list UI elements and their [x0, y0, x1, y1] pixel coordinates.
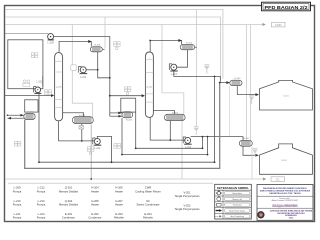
- vent funnel near tank V-202: [252, 148, 257, 157]
- CWR header line: [5, 24, 265, 26]
- feed arrow to column Q-201 from sheet 1: [5, 94, 54, 96]
- svg-text:E-203: E-203: [79, 115, 86, 117]
- recirculation box below Q-201: [25, 100, 38, 112]
- heater H-207: [235, 138, 256, 146]
- transfer line cascade 4: [25, 83, 220, 169]
- condenser E-201: [87, 45, 106, 52]
- svg-text:PFD BAGIAN 2/2: PFD BAGIAN 2/2: [265, 5, 308, 11]
- svg-text:Pompa: Pompa: [13, 189, 22, 193]
- reboiler E-204 drain: [169, 120, 171, 140]
- sheet title box PFD BAGIAN 2/2: [262, 2, 311, 11]
- condensate line E-202 down: [177, 50, 188, 67]
- steam lines to H-204: [8, 114, 24, 116]
- svg-text:Pompa: Pompa: [13, 203, 22, 207]
- svg-text:H-204: H-204: [28, 111, 35, 113]
- svg-text:L-210: L-210: [80, 76, 87, 79]
- svg-text:Pompa: Pompa: [37, 189, 46, 193]
- reboiler E-203 drain: [81, 124, 83, 141]
- svg-text:DARI ETHANOL DENGAN PROSES OXO: DARI ETHANOL DENGAN PROSES OXO-SYNTHESIS: [260, 190, 311, 193]
- svg-text:Heater: Heater: [115, 189, 123, 193]
- svg-text:H-205: H-205: [126, 120, 133, 122]
- equipment table rule: [8, 182, 213, 184]
- CWS header line: [5, 10, 223, 79]
- svg-text:Heater: Heater: [91, 189, 99, 193]
- SC collection line: [5, 178, 266, 180]
- pump L-210: [79, 66, 88, 79]
- svg-text:Q-202: Q-202: [147, 87, 154, 89]
- svg-text:E-202: E-202: [186, 42, 193, 44]
- instrument cluster E: [14, 141, 20, 146]
- equipment table text: [13, 186, 200, 220]
- svg-text:H-206: H-206: [235, 78, 242, 80]
- vapor line column Q-202 to E-202: [150, 41, 181, 52]
- pump L-211 discharge drop: [38, 93, 40, 163]
- reboiler vapor return Q-202: [153, 111, 174, 115]
- svg-text:Reboiler: Reboiler: [114, 216, 124, 220]
- drain valve below reboiler E-203: [79, 126, 84, 129]
- svg-text:Pompa: Pompa: [13, 216, 22, 220]
- svg-text:KAPASITAS 40.000 TON / TAHUN: KAPASITAS 40.000 TON / TAHUN: [269, 192, 301, 195]
- university logo: [258, 212, 264, 218]
- reboiler vapor return Q-201: [63, 113, 84, 117]
- svg-text:L-210: L-210: [14, 199, 21, 203]
- svg-text:Tangki Penyimpanan: Tangki Penyimpanan: [175, 194, 200, 198]
- svg-text:L-213: L-213: [38, 199, 45, 203]
- svg-text:Nomor Arus: Nomor Arus: [232, 192, 242, 195]
- svg-text:Arus Proses Utama: Arus Proses Utama: [229, 209, 245, 212]
- svg-text:E-204: E-204: [172, 112, 179, 114]
- svg-text:CWR: CWR: [145, 186, 151, 190]
- svg-text:Tangki Penyimpanan: Tangki Penyimpanan: [175, 207, 200, 211]
- tank V-202: [260, 144, 313, 174]
- recirculation box below Q-202: [121, 98, 136, 112]
- svg-text:Condensor: Condensor: [88, 216, 101, 220]
- condensate drop from reboiler E-203: [90, 125, 92, 179]
- instrument cluster A: [114, 42, 121, 50]
- vent funnel near pump L-213: [204, 64, 210, 73]
- svg-text:E-202: E-202: [91, 212, 99, 216]
- svg-text:1: 1: [58, 60, 59, 62]
- svg-text:Condensor: Condensor: [62, 216, 75, 220]
- instrument cluster F: [87, 147, 94, 155]
- svg-text:L-209: L-209: [48, 41, 55, 44]
- svg-text:L-211: L-211: [14, 212, 21, 216]
- cooler H-206: [226, 78, 245, 86]
- instrument cluster B: [124, 87, 131, 95]
- drain funnel near pump L-214: [194, 126, 199, 135]
- cooling water drop to condenser E-202: [195, 10, 197, 127]
- reboiler E-204: [160, 112, 189, 120]
- reboiler E-203: [67, 115, 98, 124]
- svg-text:Steam Condensate: Steam Condensate: [136, 203, 160, 207]
- SC connector box: [271, 177, 285, 182]
- svg-text:Arus Pendukung: Arus Pendukung: [231, 215, 244, 218]
- svg-text:Cooling Water Return: Cooling Water Return: [135, 189, 161, 193]
- svg-text:L-212: L-212: [38, 186, 45, 190]
- svg-text:H-207: H-207: [244, 138, 251, 140]
- condenser E-202: [177, 42, 198, 49]
- svg-text:DIAGRAM ALIR PROSES PABRIK N-B: DIAGRAM ALIR PROSES PABRIK N-BUTANOL: [263, 187, 308, 190]
- svg-text:Menara Distilasi: Menara Distilasi: [59, 203, 79, 207]
- pump L-209: [48, 34, 55, 45]
- steam riser to reboiler E-204: [162, 25, 184, 116]
- condensate drop from heater H-207: [251, 147, 253, 179]
- svg-text:Reboiler: Reboiler: [143, 216, 153, 220]
- title block: [257, 185, 313, 221]
- svg-text:H-205: H-205: [91, 199, 99, 203]
- product line to tank V-201: [237, 86, 257, 95]
- transfer line cascade 3: [39, 76, 215, 162]
- vent funnel near tank V-201: [249, 95, 254, 104]
- symbol row 5 support flow arrow: [215, 215, 219, 217]
- transfer line cascade 1: [136, 112, 203, 148]
- pump L-214: [183, 137, 192, 149]
- svg-text:E-201: E-201: [95, 45, 102, 47]
- svg-text:E-203: E-203: [115, 212, 123, 216]
- cooling water drop to condenser E-201: [104, 17, 106, 49]
- pump L-214 discharge to heater H-207: [191, 137, 243, 141]
- level instrument in feed drum: [31, 53, 38, 58]
- svg-text:L-211: L-211: [37, 81, 44, 84]
- svg-text:Dewi Anggraini 21030112130: Dewi Anggraini 21030112130074: [272, 205, 298, 208]
- feed drum box: [8, 40, 43, 89]
- symbol row 1 valve: [217, 191, 220, 194]
- feed arrow to column Q-202: [110, 95, 144, 97]
- bottoms line Q-202 to pump L-214: [150, 117, 184, 140]
- CWR connector box: [272, 22, 286, 27]
- svg-text:Q-202: Q-202: [65, 199, 73, 203]
- condensate drop from heater H-205: [181, 119, 183, 180]
- heater H-204: [19, 111, 39, 119]
- steam stubs to H-205: [110, 112, 122, 114]
- pump L-212 discharge drop: [97, 136, 111, 162]
- symbol row 3 box: [217, 204, 222, 207]
- CWS header line 2: [5, 17, 220, 80]
- symbol row 2 circle: [217, 197, 221, 201]
- tank V-201: [260, 80, 313, 110]
- instrument cluster G: [114, 144, 121, 149]
- svg-text:Heater: Heater: [115, 203, 123, 207]
- svg-text:Q-201: Q-201: [65, 186, 73, 190]
- svg-text:1: 1: [149, 58, 150, 60]
- svg-text:H-206: H-206: [115, 186, 123, 190]
- steam riser to reboiler E-203: [72, 25, 92, 118]
- svg-text:CWR: CWR: [275, 23, 282, 27]
- condensate line E-201 down: [98, 52, 110, 78]
- pump L-210 suction tie: [86, 69, 98, 71]
- bottoms line Q-201 to pump L-212: [59, 121, 95, 141]
- pump L-212: [93, 138, 102, 150]
- svg-text:SC: SC: [276, 178, 280, 182]
- cooling water drop pair to heater H-207: [246, 25, 248, 141]
- svg-text:H-207: H-207: [115, 199, 123, 203]
- condensate drop from cooler H-206: [229, 86, 231, 137]
- svg-text:V-201: V-201: [183, 190, 191, 194]
- svg-text:E-201: E-201: [65, 212, 73, 216]
- level controller in feed drum: [23, 80, 30, 87]
- symbol row 4 main flow arrow: [216, 210, 220, 212]
- column Q-201: [55, 53, 63, 121]
- svg-text:V-202: V-202: [281, 160, 287, 162]
- pump L-213 discharge to cooler H-206: [174, 70, 229, 82]
- svg-text:Menara Distilasi: Menara Distilasi: [59, 189, 79, 193]
- heater H-205: [118, 112, 137, 122]
- feed line to pump L-209: [5, 32, 48, 34]
- svg-text:Pompa: Pompa: [37, 216, 46, 220]
- svg-text:Temperatur: Temperatur: [233, 204, 242, 207]
- symbols legend box: [215, 184, 252, 219]
- vapor line column Q-201 to E-201: [59, 42, 91, 53]
- svg-text:Q-201: Q-201: [56, 87, 63, 89]
- svg-text:V-202: V-202: [183, 203, 191, 207]
- transfer line cascade 2: [122, 118, 208, 155]
- instrument box on steam line: [71, 65, 76, 71]
- svg-text:KETERANGAN SIMBOL: KETERANGAN SIMBOL: [217, 187, 250, 190]
- svg-text:V-201: V-201: [283, 95, 289, 97]
- svg-text:L-214: L-214: [38, 212, 45, 216]
- svg-text:L-209: L-209: [14, 186, 21, 190]
- svg-text:Heater: Heater: [91, 203, 99, 207]
- svg-text:E-204: E-204: [144, 212, 152, 216]
- svg-text:Menara, dst: Menara, dst: [232, 198, 242, 201]
- pump L-211: [34, 76, 44, 93]
- pump L-209 discharge line: [54, 37, 110, 117]
- svg-text:Pompa: Pompa: [37, 203, 46, 207]
- svg-text:SC: SC: [146, 199, 150, 203]
- column Q-202: [145, 52, 153, 117]
- product line to tank V-202: [243, 146, 257, 155]
- svg-text:H-204: H-204: [91, 186, 99, 190]
- pump L-213: [169, 64, 178, 76]
- svg-text:Aditya Pratama 21030112130: Aditya Pratama 21030112130071: [272, 199, 299, 202]
- instrument cluster near pump L-211: [45, 90, 52, 95]
- svg-text:L-212: L-212: [94, 147, 101, 150]
